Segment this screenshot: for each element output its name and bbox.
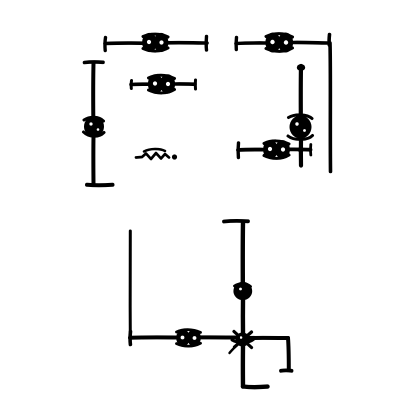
junction of right vertical and lower-right branch <box>298 147 304 153</box>
resistor R2 (scribbled double-loop body) <box>265 33 293 53</box>
stroke-start bulge at top of right vertical <box>297 64 305 71</box>
wire: top-right branch horizontal <box>236 42 329 43</box>
top cap of bottom vertical <box>224 219 248 223</box>
terminal tick: left end of top-left branch <box>103 38 107 51</box>
corner overshoot at right end of top-right branch <box>327 35 331 46</box>
junction scribble at bottom crossing <box>230 332 254 354</box>
terminal tick: left end of middle branch <box>130 81 133 89</box>
resistor R5 (scribbled double-loop body) <box>176 329 201 346</box>
wire: top-left branch horizontal <box>105 41 207 45</box>
resistor R1 (scribbled double-loop body) <box>142 33 168 52</box>
terminal tick: left end of lower-right branch <box>236 143 240 158</box>
resistor R4 (scribbled double-loop body) <box>263 140 290 159</box>
node dot on bottom vertical <box>233 282 252 300</box>
bottom foot of left vertical <box>87 183 113 187</box>
wire: left tall vertical branch <box>91 63 95 184</box>
bottom foot of bottom vertical <box>243 384 268 389</box>
voltage source V1 (scribbled round blob on left vertical) <box>84 116 105 137</box>
terminal tick: right end of middle branch <box>194 80 197 89</box>
wire: middle horizontal branch <box>131 82 195 86</box>
wire: bottom center vertical branch <box>241 222 246 387</box>
capacitor C1 (scribbled blob on right vertical) <box>288 115 313 140</box>
wire: bottom horizontal branch <box>130 335 288 340</box>
wire: right-edge vertical drop from top-right branch <box>328 43 332 172</box>
resistor R3 (scribbled double-loop body) <box>148 74 175 94</box>
stub end serif of lower-right branch <box>309 145 312 156</box>
bottom serif of right drop <box>281 369 292 373</box>
terminal tick: left end of bottom branch <box>128 332 132 345</box>
wire: left vertical riser of bottom loop <box>129 231 132 336</box>
wire: right drop of bottom branch (corner down) <box>286 338 291 370</box>
terminal tick: left end of top-right branch <box>234 38 238 50</box>
wire: right vertical branch <box>299 66 303 166</box>
wire: lower-right horizontal branch <box>238 147 311 151</box>
small component: zigzag element with dot (lower middle-left) <box>136 149 177 160</box>
top cap of left vertical <box>85 60 104 64</box>
terminal tick: right end of top-left branch <box>204 37 208 51</box>
